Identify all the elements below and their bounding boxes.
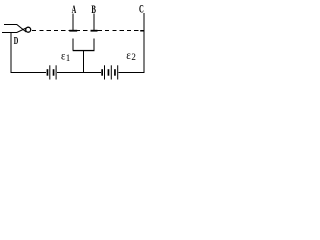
battery E2 cell1 short plate [101, 69, 103, 76]
battery E2 cell2 long plate [111, 65, 112, 79]
battery E2 cell3 long plate [117, 65, 118, 79]
yoke stem down to bottom wire [82, 51, 84, 72]
battery E2 cell2 short plate [108, 69, 110, 76]
terminal stem B [93, 14, 95, 30]
battery E2 cell3 short plate [114, 69, 116, 76]
right side wire from C down to bottom-right corner [143, 13, 145, 73]
output bubble of device D [26, 27, 31, 32]
svg-text:ε: ε [126, 48, 131, 62]
bottom wire segment 3 [118, 71, 144, 73]
svg-text:2: 2 [131, 52, 136, 62]
svg-text:D: D [14, 35, 19, 47]
contact device D: bottom input wire with diagonal [2, 28, 26, 33]
svg-text:C: C [139, 1, 144, 15]
movable yoke: left prong under A [72, 38, 74, 50]
terminal stem A [72, 14, 74, 30]
bottom wire segment 2 [57, 71, 101, 73]
battery E1 cell2 long plate [56, 65, 57, 79]
contact device D: top input wire with diagonal [4, 25, 26, 33]
yoke cross bar [73, 50, 95, 51]
left vertical wire from D down [10, 33, 12, 73]
battery E1 cell1 short plate [47, 69, 49, 76]
svg-text:A: A [72, 2, 77, 16]
svg-text:1: 1 [66, 53, 71, 63]
contact bar A [69, 30, 77, 32]
contact bar B [91, 30, 98, 32]
battery E1 cell2 short plate [53, 69, 55, 76]
contact tick at C on dashed line [140, 30, 144, 32]
dashed signal line from bubble to C [32, 30, 140, 32]
movable yoke: right prong under B [93, 38, 95, 50]
battery E1 cell1 long plate [49, 65, 50, 79]
bottom wire segment 1 [10, 71, 46, 73]
battery E2 cell1 long plate [104, 65, 105, 79]
